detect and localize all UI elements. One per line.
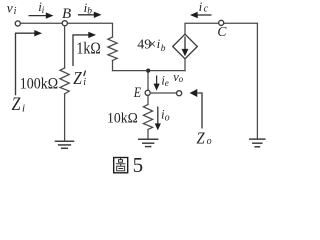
svg-text:5: 5 — [133, 153, 144, 177]
wire 1k bottom — [112, 61, 114, 71]
label io — [161, 106, 170, 123]
label ie — [161, 73, 168, 88]
wire vi to B — [21, 22, 62, 24]
wire E down to 10k — [147, 96, 149, 105]
label Zi-prime — [73, 68, 86, 88]
impedance arrow Zi-prime — [73, 32, 96, 66]
svg-text:i: i — [199, 0, 203, 14]
impedance arrow Zo — [190, 89, 202, 129]
resistor R1 1kOhm — [108, 37, 117, 61]
svg-text:C: C — [217, 24, 227, 39]
resistor R2 100kOhm — [60, 68, 69, 94]
svg-text:o: o — [179, 74, 184, 84]
impedance arrow Zi — [16, 30, 43, 95]
caption figure glyph — [114, 158, 128, 173]
terminal vo — [177, 91, 182, 96]
wire bottom rail to diamond — [113, 70, 186, 72]
label vi — [7, 1, 17, 18]
wire 100k to ground — [64, 94, 66, 141]
ground under 100k — [56, 141, 74, 148]
svg-text:Z: Z — [197, 129, 205, 147]
svg-text:o: o — [207, 136, 212, 147]
svg-text:i: i — [14, 6, 17, 17]
wire right edge down — [256, 23, 258, 139]
terminal vi — [15, 21, 20, 26]
arrow ie — [154, 76, 160, 91]
arrow ic — [190, 12, 212, 18]
arrow ii — [29, 12, 54, 18]
wire E to output terminal — [151, 92, 176, 94]
node E — [145, 90, 150, 95]
label Zi — [12, 94, 25, 115]
label ic — [199, 0, 209, 15]
ground under 10k — [139, 139, 158, 146]
svg-text:100kΩ: 100kΩ — [20, 76, 58, 93]
svg-text:b: b — [87, 7, 92, 17]
diamond internal arrow — [182, 37, 189, 57]
ground right — [250, 139, 265, 147]
svg-text:i: i — [42, 6, 45, 16]
label ii — [38, 0, 44, 16]
label Zo — [197, 129, 212, 147]
svg-text:b: b — [161, 44, 166, 54]
svg-text:Z: Z — [73, 68, 82, 88]
node B — [62, 21, 67, 26]
resistor R3 10kOhm — [143, 105, 152, 130]
wire diamond top to C and right corner — [185, 23, 257, 34]
svg-text:×: × — [149, 36, 157, 51]
svg-text:Z: Z — [12, 94, 21, 114]
svg-text:E: E — [133, 84, 142, 101]
arrow io — [155, 107, 161, 131]
wire junction to E — [147, 71, 149, 90]
svg-text:i: i — [83, 77, 86, 88]
label ib — [84, 0, 93, 17]
svg-text:c: c — [204, 4, 209, 15]
wire 10k to ground — [147, 130, 149, 140]
svg-text:e: e — [165, 78, 169, 88]
svg-text:i: i — [22, 102, 25, 114]
label 49xib — [137, 36, 166, 54]
svg-text:o: o — [165, 113, 170, 124]
wire diamond bottom — [184, 59, 186, 71]
label vo — [173, 70, 183, 84]
terminal C — [219, 20, 224, 25]
svg-text:v: v — [7, 1, 13, 16]
junction node dot — [146, 69, 150, 73]
dependent current source diamond — [173, 34, 198, 59]
wire B to 1k corner — [68, 23, 113, 37]
svg-text:B: B — [62, 6, 71, 22]
svg-text:1kΩ: 1kΩ — [76, 38, 100, 57]
arrow ib — [78, 12, 102, 18]
wire B down to 100k — [64, 26, 66, 68]
svg-text:10kΩ: 10kΩ — [107, 111, 138, 127]
